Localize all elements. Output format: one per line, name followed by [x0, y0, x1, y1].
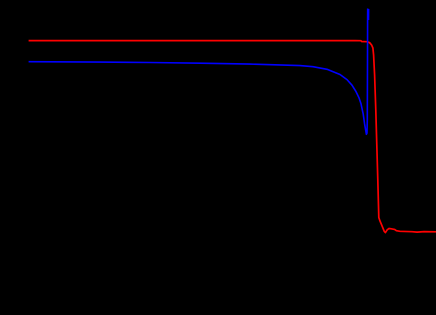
red curve: flat line, sharp drop at right, settling low: [29, 41, 436, 233]
blue spike top thickening: [368, 9, 370, 20]
blue curve: gently declining line, steep dip then vertical spike: [29, 9, 368, 135]
